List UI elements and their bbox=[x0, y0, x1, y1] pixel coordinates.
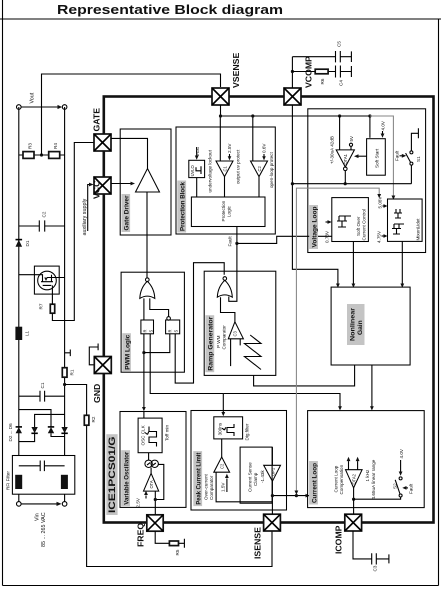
capacitor C4 + resistor R6 + capacitor C5 external bbox=[291, 72, 293, 89]
wire GND pin external bbox=[89, 344, 98, 365]
svg-text:Protection Block: Protection Block bbox=[180, 182, 187, 231]
svg-text:Voltage Loop: Voltage Loop bbox=[311, 207, 318, 248]
resistor R5 external bbox=[155, 531, 184, 548]
svg-text:Soft Over: Soft Over bbox=[356, 216, 361, 236]
ground stub on return rail bbox=[65, 350, 71, 357]
Gate Driver block bbox=[120, 129, 171, 235]
label 5V ref bbox=[350, 147, 352, 150]
comparator C1 bbox=[216, 161, 233, 177]
wire bridge ac1 bbox=[19, 433, 35, 441]
pin VCC bbox=[94, 177, 111, 194]
current mirror circles bbox=[145, 460, 152, 467]
gate NOR2 bbox=[217, 280, 232, 297]
Mixer&Idet box bbox=[388, 199, 423, 241]
inductor L1 bbox=[15, 327, 22, 340]
wire OTA2 out to ICOMP bbox=[353, 488, 355, 499]
resistor R7 bbox=[50, 304, 54, 313]
flip-flop FF2 bbox=[166, 320, 180, 334]
svg-text:C3: C3 bbox=[233, 331, 238, 337]
svg-text:OP1: OP1 bbox=[270, 467, 275, 476]
IC outline ICE1PCS01/G bbox=[104, 97, 434, 523]
svg-text:open-loop protect: open-loop protect bbox=[269, 152, 274, 188]
flip-flop FF1 bbox=[141, 320, 154, 334]
RFI filter box bbox=[12, 456, 74, 495]
svg-text:OTA: OTA bbox=[149, 480, 154, 488]
wire return rail bbox=[64, 107, 66, 456]
wire C3 output to NOR2 bbox=[221, 297, 235, 322]
svg-text:S: S bbox=[174, 330, 179, 333]
wire C1 out bbox=[224, 177, 226, 197]
wire VCOMP vertical to OTA1 out and S1 bbox=[292, 183, 411, 185]
svg-text:output uv protect: output uv protect bbox=[236, 149, 241, 184]
wire FF2 Qbar to NOR1 bbox=[150, 298, 169, 316]
svg-text:C2: C2 bbox=[220, 463, 225, 469]
resistor R4 bbox=[49, 152, 60, 159]
svg-text:Peak Current Limit: Peak Current Limit bbox=[196, 452, 203, 505]
wire bridge ac2 bbox=[51, 433, 65, 436]
svg-text:Over-current: Over-current bbox=[204, 473, 209, 500]
svg-text:VCC: VCC bbox=[195, 146, 200, 156]
wire VSENSE to OTA1 bbox=[339, 116, 341, 150]
filter block Dig.filter bbox=[214, 417, 243, 439]
svg-text:C5: C5 bbox=[337, 41, 342, 47]
op-amp OTA1 bbox=[336, 150, 354, 167]
capacitor C3 external on ICOMP bbox=[353, 531, 389, 563]
svg-text:Clamp: Clamp bbox=[253, 472, 258, 486]
svg-text:Fault: Fault bbox=[228, 236, 233, 247]
wire fault to SOCC bbox=[237, 236, 332, 243]
pin VCOMP bbox=[284, 88, 301, 105]
wire VCC supply arrow into driver bbox=[111, 183, 131, 185]
svg-text:4.0V: 4.0V bbox=[381, 120, 386, 130]
sawtooth ramp bbox=[239, 339, 241, 346]
svg-text:5V: 5V bbox=[349, 135, 354, 142]
svg-text:C4: C4 bbox=[339, 80, 344, 86]
svg-text:S1: S1 bbox=[416, 156, 421, 162]
svg-text:C3: C3 bbox=[373, 565, 378, 571]
wire soft start to OTA1 arrow bbox=[358, 155, 367, 157]
pin GATE bbox=[94, 134, 111, 151]
svg-text:2.5V: 2.5V bbox=[136, 497, 141, 507]
svg-text:R2: R2 bbox=[91, 416, 96, 422]
comparator C2 bbox=[251, 161, 268, 177]
svg-text:Soft Start: Soft Start bbox=[375, 148, 380, 168]
switch S1 bbox=[410, 162, 413, 165]
svg-text:C1: C1 bbox=[40, 382, 45, 388]
diode D-b bbox=[31, 427, 37, 433]
wire Vout arrow bbox=[21, 106, 58, 108]
wire comp input from ISENSE bbox=[216, 472, 272, 502]
wire VSENSE to Soft Start bbox=[369, 116, 371, 138]
svg-text:0.73V: 0.73V bbox=[325, 230, 330, 243]
svg-text:R6: R6 bbox=[320, 78, 325, 84]
svg-text:R4: R4 bbox=[53, 143, 58, 149]
wire comparator to filter bbox=[221, 439, 223, 457]
wire driver output to GATE bbox=[111, 138, 147, 168]
svg-text:RFI Filter: RFI Filter bbox=[6, 471, 11, 490]
svg-text:GND: GND bbox=[92, 384, 102, 403]
wire NLG to current loop bbox=[371, 365, 373, 407]
svg-text:Fault: Fault bbox=[409, 483, 414, 494]
svg-text:VSENSE: VSENSE bbox=[231, 53, 241, 88]
Protection Logic box bbox=[191, 197, 265, 227]
capacitor C2 bbox=[19, 220, 65, 231]
wire VSENSE pin into IC bbox=[221, 105, 370, 116]
svg-text:4.75V: 4.75V bbox=[377, 230, 382, 243]
wire fault to NOR2 input bbox=[229, 243, 237, 301]
pin ISENSE bbox=[264, 514, 281, 531]
wire NLG to ramp generator bbox=[254, 365, 355, 386]
svg-text:auxiliary supply: auxiliary supply bbox=[82, 198, 88, 235]
svg-text:2.5V: 2.5V bbox=[227, 143, 232, 153]
op-amp OTA2 bbox=[346, 470, 363, 488]
wire VSENSE to C1 bbox=[219, 116, 221, 161]
diode D-a bbox=[16, 427, 22, 433]
svg-text:Variable Oscillator: Variable Oscillator bbox=[123, 451, 130, 504]
wire VSENSE to C2 bbox=[252, 116, 254, 161]
wire Vin arrow bbox=[21, 503, 57, 505]
svg-text:S2: S2 bbox=[393, 483, 398, 489]
svg-text:85 ... 265 VAC: 85 ... 265 VAC bbox=[41, 512, 47, 547]
gray wire ISENSE to voltage loop bbox=[296, 188, 379, 492]
svg-text:FREQ: FREQ bbox=[136, 523, 146, 547]
diode D-c bbox=[48, 427, 54, 433]
svg-text:ISENSE: ISENSE bbox=[253, 527, 263, 559]
svg-text:0.6V: 0.6V bbox=[262, 143, 267, 153]
wire VCOMP pin to nonlinear gain bbox=[292, 105, 338, 285]
wire bridge minus bbox=[35, 414, 65, 427]
svg-text:Gate Driver: Gate Driver bbox=[124, 195, 131, 230]
svg-text:Current Sense: Current Sense bbox=[248, 462, 253, 492]
svg-text:4.65uA linear range: 4.65uA linear range bbox=[371, 459, 376, 499]
svg-text:R1: R1 bbox=[70, 369, 75, 375]
resistor R2 bbox=[65, 385, 272, 567]
wire FF1 Q to NOR1 bbox=[143, 298, 145, 320]
svg-text:VCC: VCC bbox=[92, 180, 102, 199]
svg-text:S: S bbox=[149, 330, 154, 333]
svg-text:Comparator: Comparator bbox=[209, 475, 214, 500]
svg-text:Ramp Generator: Ramp Generator bbox=[208, 316, 215, 370]
svg-text:Nonlinear: Nonlinear bbox=[350, 308, 357, 341]
op-amp OP1 bbox=[264, 465, 281, 481]
svg-text:R7: R7 bbox=[39, 303, 44, 309]
gate NOR1 bbox=[140, 281, 155, 298]
svg-text:P WM: P WM bbox=[216, 335, 221, 348]
wire NOR1 to driver input bbox=[146, 192, 148, 279]
Soft Over Current Control box bbox=[332, 198, 369, 242]
wire SOCC to NLG bbox=[352, 242, 354, 285]
resistor R3 bbox=[19, 154, 65, 156]
svg-text:Toff min: Toff min bbox=[165, 425, 170, 441]
svg-text:300ns: 300ns bbox=[218, 422, 223, 435]
switch S2 bbox=[354, 497, 401, 499]
capacitor C1 bbox=[19, 391, 65, 402]
transistor Q1 boost MOSFET bbox=[34, 266, 59, 294]
svg-text:OSC CLK: OSC CLK bbox=[141, 424, 146, 445]
svg-text:R3: R3 bbox=[28, 143, 33, 149]
svg-text:Vin: Vin bbox=[35, 513, 41, 521]
svg-text:5.08V: 5.08V bbox=[378, 196, 383, 209]
svg-text:C1: C1 bbox=[222, 166, 227, 172]
svg-text:ICE1PCS01/G: ICE1PCS01/G bbox=[107, 437, 117, 514]
Current Sense Clamp box bbox=[240, 447, 272, 503]
svg-text:OTA2: OTA2 bbox=[352, 473, 357, 484]
svg-text:Current Loop: Current Loop bbox=[311, 463, 318, 503]
svg-text:R: R bbox=[143, 330, 148, 333]
wire FF2 to NOR2 output bbox=[175, 263, 224, 383]
svg-text:1.5V: 1.5V bbox=[221, 482, 226, 492]
svg-text:Mixer&Idet: Mixer&Idet bbox=[416, 218, 421, 241]
wire UVLO to logic bbox=[196, 178, 198, 197]
comparator C3 PWM comparator bbox=[228, 322, 243, 339]
wire Mixer to NLG bbox=[401, 241, 403, 284]
svg-text:-1.43k: -1.43k bbox=[260, 470, 265, 483]
input stubs bbox=[349, 461, 358, 470]
svg-text:Gain: Gain bbox=[357, 320, 364, 335]
wire OTA1 output bbox=[344, 171, 346, 184]
pin GND bbox=[94, 357, 111, 374]
svg-text:+/-30uA 42dB: +/-30uA 42dB bbox=[330, 136, 335, 164]
wire C3 input stub bbox=[230, 339, 232, 366]
svg-text:D2 ... D6: D2 ... D6 bbox=[8, 423, 13, 442]
svg-text:undervoltage lockout: undervoltage lockout bbox=[208, 149, 213, 192]
svg-text:Current Control: Current Control bbox=[362, 209, 367, 240]
node R1 junction bbox=[63, 383, 66, 386]
svg-text:Dig.filter: Dig.filter bbox=[245, 423, 250, 440]
wire FREQ input + feedback bbox=[155, 464, 164, 514]
wire bridge + connection bbox=[19, 410, 51, 427]
pin ICOMP bbox=[345, 514, 362, 531]
wire OP1 to ISENSE node bbox=[271, 481, 273, 495]
Soft Start box bbox=[367, 139, 386, 176]
svg-text:R: R bbox=[168, 330, 173, 333]
svg-text:OTA1: OTA1 bbox=[343, 153, 348, 164]
svg-text:Current Loop: Current Loop bbox=[334, 465, 339, 492]
svg-text:R5: R5 bbox=[175, 549, 180, 555]
wire FF1 S to digfilter junction bbox=[150, 334, 223, 394]
svg-text:Comparator: Comparator bbox=[222, 325, 227, 350]
svg-text:C2: C2 bbox=[42, 211, 47, 217]
wire junction to dig filter bbox=[222, 394, 224, 414]
pin VSENSE bbox=[212, 88, 229, 105]
svg-text:1 kHz: 1 kHz bbox=[365, 469, 370, 481]
resistor R1 bbox=[62, 368, 67, 378]
node Vin terminals bbox=[17, 502, 22, 507]
wire top rail bbox=[18, 107, 20, 456]
wire VSENSE to Mixer (gray) bbox=[370, 116, 394, 197]
wire divider to VSENSE bbox=[42, 74, 221, 155]
svg-text:Vout: Vout bbox=[30, 92, 36, 103]
svg-text:PWM Logic: PWM Logic bbox=[124, 334, 131, 369]
pin FREQ bbox=[147, 515, 163, 531]
svg-text:Representative Block diagram: Representative Block diagram bbox=[57, 2, 283, 17]
svg-text:Protection: Protection bbox=[221, 200, 226, 221]
svg-text:Fault: Fault bbox=[394, 150, 399, 161]
wire clock to FF1 FF2 bbox=[143, 334, 145, 410]
wire C2 out bbox=[258, 177, 260, 197]
diode D1 bbox=[16, 240, 23, 247]
wire OSC CLK out to PWM logic bbox=[143, 412, 145, 419]
diode D-d bbox=[61, 427, 67, 433]
OSC CLK box bbox=[138, 418, 162, 453]
comparator C4 over-current bbox=[214, 457, 230, 472]
UVLO box bbox=[189, 160, 205, 177]
svg-text:Compensation: Compensation bbox=[339, 464, 344, 494]
node Vout terminals bbox=[17, 105, 22, 110]
svg-text:D1: D1 bbox=[25, 240, 30, 246]
svg-text:C2: C2 bbox=[257, 166, 262, 172]
svg-text:4.0V: 4.0V bbox=[399, 448, 404, 458]
svg-text:ICOMP: ICOMP bbox=[334, 525, 344, 554]
svg-text:GATE: GATE bbox=[92, 108, 102, 132]
svg-text:UVLO: UVLO bbox=[190, 165, 195, 176]
node divider junction bbox=[40, 153, 43, 156]
op-amp OTA osc bbox=[144, 473, 159, 491]
svg-text:Logic: Logic bbox=[227, 205, 232, 217]
svg-text:L1: L1 bbox=[25, 330, 30, 336]
label ICE1PCS01/G bbox=[106, 434, 117, 515]
op-amp driver triangle bbox=[136, 169, 160, 193]
wire junction to current loop bbox=[223, 394, 340, 408]
